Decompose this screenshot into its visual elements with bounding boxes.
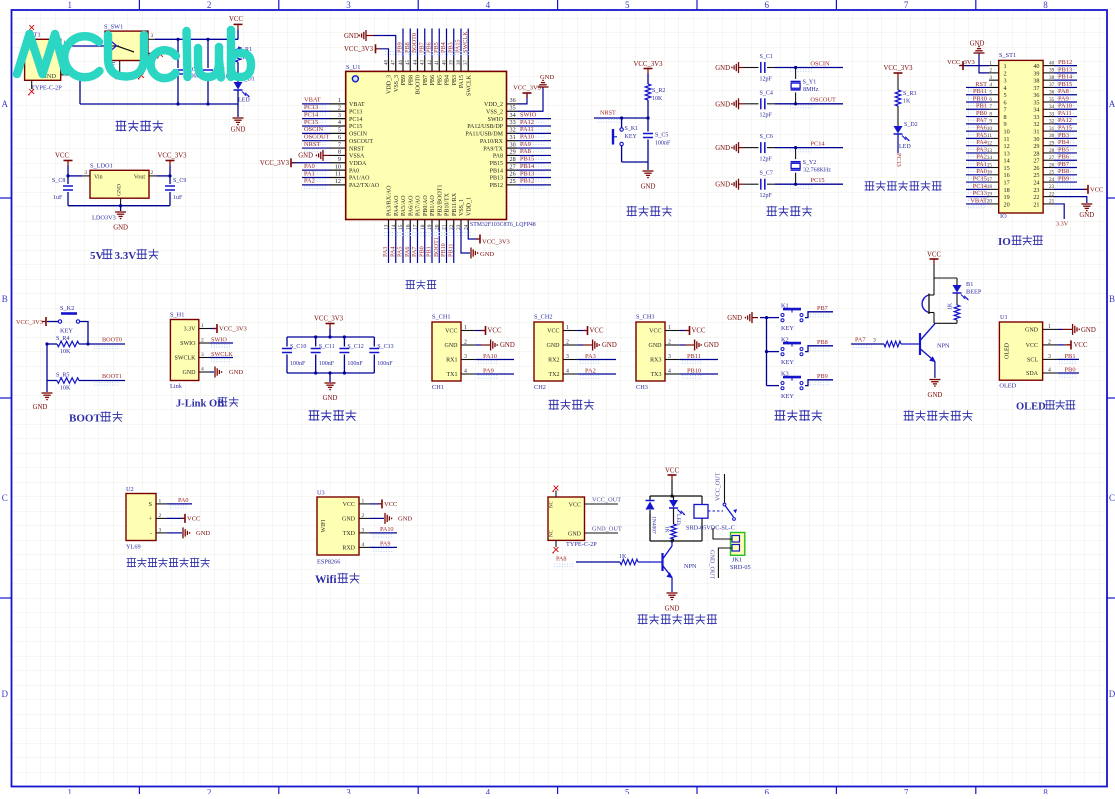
svg-text:29: 29 — [1033, 143, 1039, 150]
svg-text:OLED: OLED — [1005, 342, 1011, 359]
svg-text:CH1: CH1 — [432, 384, 444, 391]
svg-text:16: 16 — [1004, 172, 1010, 179]
svg-text:OSCIN: OSCIN — [349, 132, 368, 138]
svg-text:PA0: PA0 — [349, 168, 359, 174]
svg-text:A: A — [1109, 99, 1115, 109]
svg-text:NRST: NRST — [600, 110, 616, 117]
svg-text:Vout: Vout — [134, 175, 146, 181]
svg-text:39: 39 — [450, 60, 455, 66]
svg-text:PB15: PB15 — [1058, 81, 1072, 88]
svg-text:PA11: PA11 — [1058, 110, 1072, 117]
svg-text:3: 3 — [346, 788, 351, 795]
svg-text:VSS_1: VSS_1 — [459, 199, 465, 216]
svg-text:28: 28 — [1033, 150, 1039, 157]
svg-text:S_LDO1: S_LDO1 — [90, 163, 113, 170]
svg-text:S_SW1: S_SW1 — [104, 24, 123, 31]
svg-text:K2: K2 — [781, 337, 789, 344]
svg-text:4: 4 — [989, 82, 992, 88]
svg-text:S_D2: S_D2 — [904, 122, 918, 128]
svg-text:25: 25 — [1049, 170, 1055, 176]
svg-text:29: 29 — [1049, 140, 1055, 146]
svg-text:S_C8: S_C8 — [52, 178, 65, 184]
svg-text:PB12: PB12 — [520, 178, 534, 185]
svg-text:S: S — [149, 502, 152, 508]
svg-text:PB12: PB12 — [490, 183, 503, 189]
svg-text:VDDA: VDDA — [349, 161, 367, 167]
svg-text:28: 28 — [1049, 148, 1055, 154]
svg-text:BOOT0: BOOT0 — [102, 337, 122, 344]
svg-text:6: 6 — [989, 97, 992, 103]
svg-text:14: 14 — [1004, 158, 1010, 165]
svg-text:JK1: JK1 — [732, 557, 742, 564]
svg-text:OSCIN: OSCIN — [304, 126, 324, 133]
svg-text:BOOT1: BOOT1 — [102, 373, 122, 380]
svg-text:6: 6 — [764, 788, 769, 795]
svg-text:U1: U1 — [1000, 314, 1008, 321]
svg-text:9: 9 — [338, 156, 341, 163]
svg-text:35: 35 — [1049, 97, 1055, 103]
svg-text:SWCLK: SWCLK — [175, 356, 197, 362]
svg-text:VCC: VCC — [384, 501, 397, 508]
svg-text:KEY: KEY — [60, 328, 73, 335]
svg-text:PA0: PA0 — [304, 163, 315, 170]
svg-text:VCC: VCC — [590, 328, 604, 335]
svg-text:PB9: PB9 — [401, 75, 407, 85]
svg-text:PA10: PA10 — [380, 526, 394, 533]
svg-text:7: 7 — [904, 0, 909, 10]
svg-text:1: 1 — [1048, 324, 1051, 330]
svg-text:YL69: YL69 — [126, 544, 141, 551]
svg-text:1K: 1K — [948, 302, 954, 310]
svg-text:3.3V: 3.3V — [184, 327, 197, 333]
svg-text:VCC: VCC — [445, 329, 457, 335]
svg-text:40: 40 — [442, 60, 447, 66]
svg-text:VCC: VCC — [1026, 343, 1038, 349]
svg-text:30: 30 — [510, 141, 516, 148]
svg-text:13: 13 — [1004, 150, 1010, 157]
svg-text:36: 36 — [1033, 92, 1039, 99]
svg-text:BOOT: BOOT — [69, 413, 101, 425]
svg-text:CH3: CH3 — [636, 384, 648, 391]
svg-text:VCC: VCC — [927, 252, 941, 259]
svg-text:8: 8 — [338, 149, 341, 156]
svg-text:31: 31 — [510, 134, 516, 141]
svg-text:PB8: PB8 — [817, 339, 828, 346]
svg-text:3: 3 — [464, 354, 467, 360]
svg-text:S_C9: S_C9 — [173, 178, 186, 184]
svg-text:PA6: PA6 — [404, 247, 411, 257]
svg-text:9: 9 — [1004, 121, 1007, 128]
svg-text:VCC_3V3: VCC_3V3 — [344, 46, 374, 53]
svg-text:PB0/AO: PB0/AO — [423, 195, 429, 216]
svg-text:48: 48 — [384, 60, 389, 66]
svg-text:12pF: 12pF — [760, 113, 773, 119]
svg-text:12pF: 12pF — [760, 193, 773, 199]
svg-text:11: 11 — [1004, 136, 1010, 143]
svg-text:PA2: PA2 — [304, 178, 315, 185]
svg-text:PB8: PB8 — [404, 42, 411, 53]
svg-text:GND: GND — [715, 101, 730, 108]
svg-text:S_H1: S_H1 — [170, 312, 184, 319]
svg-text:31: 31 — [1049, 126, 1055, 132]
svg-text:PA3: PA3 — [585, 353, 596, 360]
svg-text:LED: LED — [238, 98, 250, 104]
svg-text:3: 3 — [873, 338, 876, 344]
svg-text:KEY: KEY — [781, 393, 794, 400]
svg-text:47: 47 — [392, 60, 397, 66]
svg-text:S_C11: S_C11 — [319, 344, 335, 350]
svg-text:PA5: PA5 — [976, 132, 987, 139]
svg-text:GND: GND — [183, 370, 197, 376]
svg-text:Vin: Vin — [94, 175, 103, 181]
svg-text:PB9: PB9 — [817, 373, 828, 380]
svg-text:TX3: TX3 — [651, 372, 662, 378]
svg-text:VSS_2: VSS_2 — [486, 109, 503, 115]
svg-text:VCC_3V3: VCC_3V3 — [482, 239, 510, 246]
svg-text:GND: GND — [602, 342, 617, 349]
svg-text:10K: 10K — [60, 349, 71, 355]
svg-text:4: 4 — [362, 542, 365, 548]
svg-text:PB4: PB4 — [445, 75, 451, 85]
svg-text:PA7: PA7 — [411, 247, 418, 257]
svg-text:PB14: PB14 — [520, 163, 535, 170]
svg-text:1: 1 — [338, 97, 341, 104]
svg-text:8MHz: 8MHz — [803, 87, 819, 93]
svg-text:21: 21 — [1049, 199, 1055, 205]
svg-text:2: 2 — [1004, 70, 1007, 77]
svg-text:PB10: PB10 — [440, 243, 447, 257]
svg-text:PB5: PB5 — [437, 75, 443, 85]
svg-text:PA4: PA4 — [389, 247, 396, 257]
svg-text:PB5: PB5 — [433, 42, 440, 53]
svg-text:27: 27 — [1049, 155, 1055, 161]
svg-text:S_ST1: S_ST1 — [999, 52, 1016, 59]
svg-text:S_C13: S_C13 — [377, 344, 393, 350]
svg-text:1: 1 — [668, 325, 671, 331]
svg-text:32: 32 — [510, 127, 516, 134]
svg-text:BEEP: BEEP — [966, 289, 982, 296]
svg-text:PB6: PB6 — [1058, 154, 1069, 161]
svg-text:30: 30 — [1049, 133, 1055, 139]
svg-text:2: 2 — [362, 513, 365, 519]
svg-text:2: 2 — [207, 788, 212, 795]
svg-text:GND: GND — [33, 404, 48, 411]
svg-text:LDO3V3: LDO3V3 — [92, 215, 116, 222]
svg-text:3.3V: 3.3V — [1056, 221, 1069, 228]
svg-text:1: 1 — [67, 788, 72, 795]
svg-text:PB7: PB7 — [1058, 161, 1070, 168]
svg-text:36: 36 — [1049, 90, 1055, 96]
svg-text:3: 3 — [159, 527, 162, 533]
svg-text:S_C4: S_C4 — [760, 90, 773, 96]
svg-text:VBAT: VBAT — [304, 97, 321, 104]
svg-text:18: 18 — [1004, 187, 1010, 194]
svg-text:3: 3 — [989, 75, 992, 81]
svg-text:D: D — [1109, 689, 1115, 699]
svg-text:39: 39 — [1033, 70, 1039, 77]
svg-text:RX2: RX2 — [548, 358, 559, 364]
svg-text:PB14: PB14 — [1058, 74, 1073, 81]
svg-text:20: 20 — [1004, 201, 1010, 208]
svg-text:2: 2 — [338, 104, 341, 111]
svg-text:BOOT1: BOOT1 — [433, 237, 440, 257]
svg-text:32.768KHz: 32.768KHz — [803, 167, 831, 173]
svg-text:TX1: TX1 — [447, 372, 458, 378]
svg-text:PA2: PA2 — [585, 367, 596, 374]
svg-text:SWCLK: SWCLK — [466, 74, 472, 96]
svg-text:PB9: PB9 — [397, 42, 404, 53]
svg-text:PB2/BOOT1: PB2/BOOT1 — [437, 185, 443, 216]
svg-text:GND: GND — [1079, 212, 1094, 219]
svg-text:STM32F103C8T6_LQFP48: STM32F103C8T6_LQFP48 — [470, 222, 536, 228]
svg-text:PA8: PA8 — [520, 148, 531, 155]
svg-text:GND_OUT: GND_OUT — [592, 526, 622, 533]
svg-text:VCC: VCC — [665, 468, 679, 475]
svg-text:IO: IO — [998, 236, 1011, 248]
svg-text:1K: 1K — [903, 99, 911, 105]
svg-text:5: 5 — [989, 90, 992, 96]
svg-text:28: 28 — [510, 156, 516, 163]
svg-text:RST: RST — [975, 81, 987, 88]
svg-text:U3: U3 — [317, 490, 325, 497]
svg-text:S_C6: S_C6 — [760, 134, 773, 140]
svg-text:VDD_3: VDD_3 — [387, 75, 393, 94]
svg-text:26: 26 — [510, 171, 516, 178]
svg-text:PB11: PB11 — [447, 243, 454, 257]
svg-text:J-Link OB: J-Link OB — [176, 399, 224, 410]
svg-text:NPN: NPN — [684, 563, 697, 570]
svg-text:NC: NC — [550, 500, 555, 508]
svg-text:PB7: PB7 — [817, 305, 828, 312]
svg-text:S_K2: S_K2 — [60, 305, 74, 312]
svg-text:S_CH1: S_CH1 — [432, 314, 451, 321]
svg-text:B: B — [1109, 294, 1115, 304]
svg-text:VCC_3V3: VCC_3V3 — [513, 85, 541, 92]
svg-text:VBAT: VBAT — [970, 197, 987, 204]
svg-text:PA9/TX: PA9/TX — [483, 146, 503, 152]
svg-text:4: 4 — [1004, 85, 1007, 92]
svg-text:PA12/USB/DP: PA12/USB/DP — [467, 124, 503, 130]
svg-text:PA4: PA4 — [976, 139, 988, 146]
svg-text:VCC: VCC — [55, 153, 69, 160]
svg-text:38: 38 — [457, 60, 462, 66]
svg-text:S_C1: S_C1 — [760, 54, 773, 60]
svg-text:PC14: PC14 — [973, 183, 988, 190]
svg-text:27: 27 — [510, 163, 516, 170]
svg-text:PC13: PC13 — [973, 190, 987, 197]
svg-text:6: 6 — [1004, 99, 1007, 106]
svg-text:GND: GND — [727, 315, 742, 322]
svg-text:Wifi: Wifi — [315, 574, 337, 586]
svg-text:S_K1: S_K1 — [625, 126, 639, 132]
svg-text:26: 26 — [1033, 165, 1039, 172]
svg-text:VCC_3V3: VCC_3V3 — [16, 319, 43, 326]
svg-text:PB10: PB10 — [687, 367, 701, 374]
svg-text:PA7: PA7 — [976, 117, 988, 124]
svg-text:12pF: 12pF — [760, 76, 773, 82]
svg-text:1: 1 — [566, 325, 569, 331]
svg-text:S_U1: S_U1 — [346, 64, 360, 71]
svg-text:LED: LED — [899, 144, 911, 150]
svg-text:33: 33 — [1033, 114, 1039, 121]
svg-text:PA3: PA3 — [382, 247, 389, 257]
svg-text:1: 1 — [1004, 63, 1007, 70]
svg-text:45: 45 — [406, 60, 411, 66]
svg-text:K1: K1 — [781, 303, 789, 310]
svg-text:PB1/AO: PB1/AO — [430, 195, 436, 216]
svg-text:TXD: TXD — [343, 531, 356, 537]
svg-text:GND: GND — [641, 184, 656, 191]
svg-text:VCC_3V3: VCC_3V3 — [314, 316, 344, 323]
svg-text:VCC_3V3: VCC_3V3 — [947, 59, 975, 66]
svg-text:2: 2 — [159, 513, 162, 519]
svg-text:-: - — [150, 531, 152, 537]
svg-text:PB6: PB6 — [430, 75, 436, 85]
svg-text:S_CH3: S_CH3 — [636, 314, 655, 321]
svg-text:9: 9 — [989, 119, 992, 125]
svg-text:1: 1 — [362, 498, 365, 504]
svg-text:NPN: NPN — [937, 343, 950, 350]
svg-text:24: 24 — [1033, 179, 1039, 186]
svg-text:S_CH2: S_CH2 — [534, 314, 553, 321]
svg-text:3: 3 — [566, 354, 569, 360]
svg-text:PB7: PB7 — [423, 75, 429, 85]
svg-text:GND: GND — [229, 369, 243, 376]
svg-text:1uF: 1uF — [53, 195, 63, 201]
svg-text:1uF: 1uF — [173, 195, 183, 201]
svg-text:TYPE-C-2P: TYPE-C-2P — [31, 85, 62, 92]
svg-text:2: 2 — [464, 339, 467, 345]
svg-text:PA15: PA15 — [455, 39, 462, 53]
svg-text:PA1: PA1 — [976, 161, 987, 168]
svg-text:PB8: PB8 — [1058, 168, 1069, 175]
svg-text:29: 29 — [510, 149, 516, 156]
svg-text:RX1: RX1 — [446, 358, 457, 364]
svg-text:PB15: PB15 — [490, 161, 503, 167]
svg-text:3: 3 — [201, 352, 204, 358]
svg-text:35: 35 — [1033, 99, 1039, 106]
svg-text:39: 39 — [1049, 68, 1055, 74]
svg-text:24: 24 — [1049, 177, 1055, 183]
svg-text:GND: GND — [540, 74, 554, 81]
svg-text:VCC_3V3: VCC_3V3 — [260, 160, 290, 167]
svg-text:12: 12 — [1004, 143, 1010, 150]
svg-text:PC15: PC15 — [810, 177, 824, 184]
svg-text:SWIO: SWIO — [488, 117, 504, 123]
svg-text:K3: K3 — [781, 371, 789, 378]
svg-text:SRD-05: SRD-05 — [730, 564, 751, 571]
svg-text:PA9: PA9 — [520, 141, 531, 148]
svg-text:S_Y1: S_Y1 — [803, 80, 817, 86]
svg-text:PC13: PC13 — [895, 153, 902, 167]
svg-text:VCC: VCC — [229, 16, 243, 23]
svg-text:WIFI: WIFI — [321, 520, 327, 533]
svg-text:VCC: VCC — [649, 329, 661, 335]
svg-text:PA10: PA10 — [520, 134, 534, 141]
svg-text:PA9: PA9 — [1058, 95, 1069, 102]
svg-text:4: 4 — [338, 119, 341, 126]
svg-text:32: 32 — [1033, 121, 1039, 128]
svg-text:PB10: PB10 — [973, 95, 987, 102]
svg-text:SDA: SDA — [1026, 371, 1039, 377]
svg-text:5: 5 — [625, 0, 630, 10]
svg-text:5: 5 — [625, 788, 630, 795]
svg-text:3: 3 — [346, 0, 351, 10]
svg-text:NRST: NRST — [304, 141, 320, 148]
svg-text:KEY: KEY — [625, 134, 638, 140]
svg-text:KEY: KEY — [781, 359, 794, 366]
svg-text:S_Y2: S_Y2 — [803, 160, 817, 166]
svg-text:PA15: PA15 — [1058, 125, 1072, 132]
svg-text:22: 22 — [1033, 194, 1039, 201]
svg-text:2: 2 — [207, 0, 212, 10]
svg-text:34: 34 — [510, 112, 516, 119]
svg-text:NRST: NRST — [349, 146, 365, 152]
svg-text:3: 3 — [85, 170, 88, 176]
svg-text:GND: GND — [231, 127, 246, 134]
svg-text:4: 4 — [566, 368, 569, 374]
svg-text:8: 8 — [1004, 114, 1007, 121]
svg-text:SWCLK: SWCLK — [462, 31, 469, 53]
svg-text:2: 2 — [668, 339, 671, 345]
svg-text:38: 38 — [1033, 78, 1039, 85]
svg-text:TX2: TX2 — [549, 372, 560, 378]
svg-text:100nF: 100nF — [377, 361, 393, 367]
svg-text:VCC_OUT: VCC_OUT — [592, 497, 621, 504]
svg-text:46: 46 — [399, 60, 404, 66]
svg-text:VCC: VCC — [1090, 186, 1103, 193]
svg-text:40: 40 — [1033, 63, 1039, 70]
svg-text:PA7/AO: PA7/AO — [416, 195, 422, 216]
svg-text:GND: GND — [928, 392, 943, 399]
svg-text:PC14: PC14 — [349, 117, 362, 123]
svg-text:VCC: VCC — [187, 515, 200, 522]
svg-text:GND: GND — [568, 532, 582, 538]
svg-text:6: 6 — [764, 0, 769, 10]
svg-text:PB14: PB14 — [490, 168, 503, 174]
svg-text:PB5: PB5 — [1058, 146, 1069, 153]
svg-text:7: 7 — [338, 141, 341, 148]
svg-text:KEY: KEY — [781, 325, 794, 332]
svg-text:PA11/USB/DM: PA11/USB/DM — [465, 132, 503, 138]
svg-text:U2: U2 — [126, 486, 134, 493]
svg-text:37: 37 — [1033, 85, 1039, 92]
svg-text:GND: GND — [547, 343, 561, 349]
svg-text:10K: 10K — [60, 386, 71, 392]
svg-text:15: 15 — [1004, 165, 1010, 172]
svg-text:12: 12 — [335, 178, 341, 185]
svg-text:CH2: CH2 — [534, 384, 546, 391]
svg-text:PB1: PB1 — [426, 246, 433, 257]
svg-text:PC15: PC15 — [304, 119, 318, 126]
svg-text:10: 10 — [1004, 129, 1010, 136]
svg-text:GND: GND — [298, 153, 313, 160]
svg-text:3: 3 — [1048, 354, 1051, 360]
svg-text:GND: GND — [445, 343, 459, 349]
svg-text:43: 43 — [421, 60, 426, 66]
svg-text:SWIO: SWIO — [520, 111, 537, 118]
svg-text:OSCOUT: OSCOUT — [349, 139, 373, 145]
svg-text:17: 17 — [1004, 179, 1010, 186]
svg-text:1K: 1K — [664, 526, 670, 533]
svg-text:VBAT: VBAT — [349, 102, 365, 108]
svg-text:33: 33 — [510, 119, 516, 126]
svg-text:31: 31 — [1033, 129, 1039, 136]
svg-text:PB11/RX: PB11/RX — [452, 192, 458, 216]
svg-text:3: 3 — [1004, 78, 1007, 85]
svg-text:5: 5 — [1004, 92, 1007, 99]
svg-text:PA5/AO: PA5/AO — [401, 195, 407, 216]
